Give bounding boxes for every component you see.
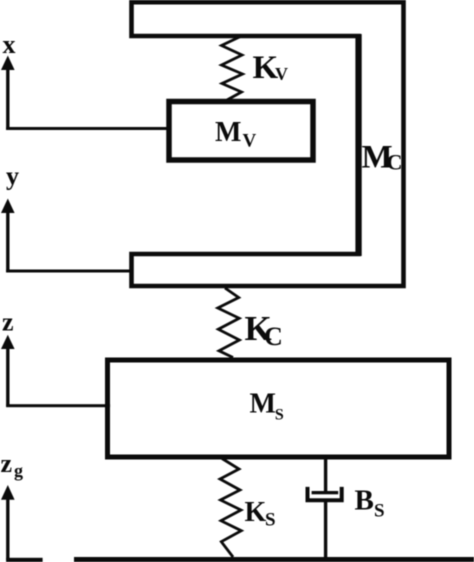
label K_S [245,497,276,531]
svg-text:S: S [275,406,284,423]
z axis wire to M_S [6,404,110,407]
svg-text:z: z [1,449,13,478]
mass M_V box [169,102,313,161]
z_g axis arrow [1,485,15,500]
svg-text:M: M [215,117,241,148]
damper B_S: piston plate [312,491,339,494]
z_g axis label [1,449,24,481]
damper B_S: bottom rod [324,500,327,559]
spring K_C [218,288,240,358]
z_g axis line [6,492,9,560]
svg-text:B: B [355,485,374,517]
svg-text:V: V [243,131,257,152]
svg-text:y: y [6,161,19,190]
ground line (main) [74,557,474,562]
label K_C [245,309,283,351]
label K_V [253,50,289,86]
svg-text:K: K [245,497,267,528]
label B_S [355,485,385,522]
y axis arrow [1,199,15,214]
label M_S [250,388,284,423]
label M_C [362,139,403,175]
svg-text:x: x [3,30,16,59]
x axis line [6,62,9,130]
svg-text:S: S [265,510,276,531]
svg-text:C: C [264,322,283,351]
x axis arrow [1,56,15,71]
damper B_S: top rod [324,457,327,493]
ground line (left segment under z_g axis) [6,558,43,562]
y axis line [6,205,9,272]
svg-text:S: S [374,501,385,522]
z axis arrow [1,335,15,349]
spring K_V [222,36,243,100]
inner vertical wall of bracket (thicker) [355,34,361,256]
label M_V [215,117,257,152]
frame bracket M_C (C-shaped body) [132,2,404,286]
y axis wire to bracket [6,270,133,273]
svg-text:z: z [2,307,14,336]
mass M_S box [108,360,450,457]
svg-text:g: g [14,461,23,481]
svg-text:M: M [250,388,276,419]
spring K_S [220,459,241,558]
svg-text:V: V [275,64,288,84]
damper B_S: cylinder cup [308,487,342,500]
z axis line [6,341,9,406]
svg-text:C: C [387,150,403,175]
x axis wire to M_V [6,127,169,130]
